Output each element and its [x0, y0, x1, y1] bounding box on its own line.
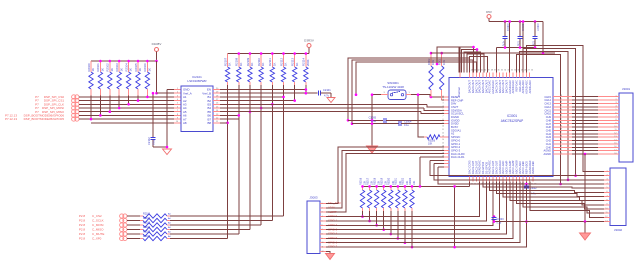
svg-text:1K: 1K: [91, 68, 95, 72]
svg-text:10: 10: [322, 242, 324, 244]
wire DSP_SPI_CLK row: [79, 103, 174, 105]
pull-up rail bank2: [228, 53, 309, 55]
svg-text:1K: 1K: [272, 62, 276, 66]
svg-text:3: 3: [443, 102, 444, 104]
svg-text:A8: A8: [183, 121, 187, 125]
pull-up rail bank1: [91, 60, 157, 62]
wire GPIO-3 row from J3003: [326, 229, 384, 231]
wire DVDD row with capacitor C3005: [348, 119, 383, 121]
svg-text:11: 11: [442, 129, 444, 131]
wire GPIO-1 row from J3003: [326, 220, 370, 222]
svg-text:D3R3V: D3R3V: [304, 39, 314, 43]
svg-text:27: 27: [528, 70, 530, 72]
svg-text:4.7u: 4.7u: [502, 41, 505, 46]
svg-text:1: 1: [443, 96, 444, 98]
AGND to J3002: [584, 153, 587, 156]
wire B2 via R2113: [220, 100, 295, 102]
resistor R2100 1K: [90, 61, 92, 72]
wire D5V rail: [489, 21, 543, 23]
resistor R2106: [127, 238, 140, 240]
svg-text:2: 2: [606, 174, 607, 176]
wire GPIO-6 row from J3003: [326, 242, 405, 244]
svg-text:P2.8: P2.8: [79, 223, 86, 227]
chip top pin names: [469, 73, 471, 78]
svg-text:TS-1102W 4328: TS-1102W 4328: [382, 85, 404, 89]
svg-text:1K: 1K: [228, 62, 232, 66]
svg-text:1: 1: [322, 203, 323, 205]
svg-text:1K: 1K: [295, 62, 299, 66]
svg-text:C2102: C2102: [147, 137, 151, 145]
svg-text:7: 7: [606, 195, 607, 197]
resistor R3026 10K: [418, 95, 424, 137]
svg-text:9: 9: [606, 204, 607, 206]
svg-text:8: 8: [322, 233, 323, 235]
svg-text:2: 2: [322, 207, 323, 209]
svg-text:1K: 1K: [284, 62, 288, 66]
wires chip right to J3001: [553, 96, 572, 98]
svg-text:R2104: R2104: [143, 226, 151, 229]
wire GPIO-4 row from J3003: [326, 233, 391, 235]
connector J3002: [610, 168, 626, 226]
svg-text:P2.8: P2.8: [79, 232, 86, 236]
svg-text:R3016: R3016: [359, 177, 362, 185]
svg-text:6: 6: [443, 112, 444, 114]
capacitor C2101: [317, 91, 319, 96]
svg-text:11: 11: [322, 247, 324, 249]
wire cap rail to AVDD pins: [496, 47, 535, 49]
wire AGND row: [494, 221, 604, 223]
svg-text:R3020: R3020: [388, 177, 391, 185]
svg-text:1K: 1K: [250, 62, 254, 66]
resistor R2105 1K: [137, 61, 139, 72]
wires top pins join DAC rows: [523, 49, 576, 176]
resistor R3019 10K: [383, 186, 385, 190]
svg-text:14: 14: [442, 139, 444, 141]
svg-text:10: 10: [605, 208, 607, 210]
svg-text:4.7u: 4.7u: [324, 94, 330, 98]
svg-text:C_SCLK: C_SCLK: [92, 219, 104, 223]
svg-text:C_MISO: C_MISO: [92, 228, 104, 232]
svg-text:1K: 1K: [110, 68, 114, 72]
wire B7 B8 stubs: [220, 118, 239, 120]
svg-text:36: 36: [560, 135, 562, 137]
svg-text:10: 10: [614, 126, 616, 128]
svg-text:J3001: J3001: [622, 87, 631, 91]
svg-text:43: 43: [474, 70, 476, 72]
svg-text:10K: 10K: [413, 180, 416, 185]
bottom pull-up rail to IOVDD: [363, 185, 470, 187]
capacitor C3002 4.7u: [525, 183, 528, 186]
svg-text:12: 12: [322, 251, 324, 253]
svg-text:42: 42: [477, 70, 479, 72]
resistor R2104 1K: [128, 61, 130, 72]
wire DSP_BOOTMODE06/GPIO06 row: [79, 114, 174, 116]
svg-text:R3023: R3023: [409, 177, 412, 185]
svg-text:3: 3: [606, 179, 607, 181]
svg-text:200K: 200K: [306, 59, 310, 66]
svg-text:15: 15: [614, 143, 616, 145]
svg-text:2: 2: [443, 99, 444, 101]
capacitor C3006 0.1u: [519, 22, 521, 37]
resistor R3011 10K: [430, 53, 432, 66]
svg-text:40: 40: [560, 122, 562, 124]
resistor R2112 1K: [283, 54, 285, 68]
wire top pin to J3002 pin1: [526, 46, 604, 172]
svg-text:12: 12: [442, 132, 444, 134]
svg-text:13: 13: [442, 136, 444, 138]
ground (SW3001): [367, 146, 378, 153]
svg-text:R3017: R3017: [366, 177, 369, 185]
resistor R2102 1K: [109, 61, 111, 72]
svg-text:8: 8: [615, 119, 616, 121]
resistor R2106 1K: [146, 61, 148, 72]
svg-text:AMC7812SPAP: AMC7812SPAP: [501, 119, 523, 123]
svg-text:35: 35: [501, 70, 503, 72]
wire D5V pass-through pins: [509, 22, 511, 73]
svg-text:P2.8: P2.8: [79, 214, 86, 218]
wire IOVDD row with capacitor C3004: [352, 123, 399, 125]
svg-text:AGND: AGND: [544, 152, 552, 156]
svg-text:46: 46: [560, 102, 562, 104]
ground rail via SW: [371, 95, 373, 146]
svg-text:11: 11: [615, 129, 617, 131]
wire A8 row: [91, 122, 174, 124]
svg-text:C3002: C3002: [530, 187, 538, 190]
svg-text:D5V: D5V: [486, 10, 492, 14]
svg-text:8: 8: [606, 199, 607, 201]
wire VrefA row: [157, 92, 175, 94]
svg-text:C_CS2: C_CS2: [92, 214, 102, 218]
svg-text:11: 11: [606, 212, 608, 214]
wire B3 B4 B5 rows to chip: [220, 103, 427, 105]
svg-text:36: 36: [498, 70, 500, 72]
resistor R3012 10K: [441, 53, 443, 66]
svg-text:P2.8: P2.8: [79, 237, 86, 241]
svg-text:38: 38: [560, 129, 562, 131]
svg-text:4: 4: [322, 216, 323, 218]
ground (IC2101): [163, 149, 172, 155]
ic IC3001 AMC7812SPAP box: [449, 78, 553, 177]
svg-text:32: 32: [511, 70, 513, 72]
resistor R2114 200K: [305, 54, 307, 68]
svg-text:18: 18: [614, 153, 616, 155]
wire IC2101 GND to ground: [167, 89, 174, 91]
wire DSP_BOOTMODE05/GPIO05 row: [79, 118, 174, 120]
svg-text:47: 47: [560, 98, 562, 100]
svg-text:D1R8V: D1R8V: [152, 42, 162, 46]
wires C_ bus to bank2 verticals: [170, 215, 284, 217]
svg-text:3: 3: [615, 102, 616, 104]
svg-text:1K: 1K: [129, 68, 133, 72]
svg-text:9: 9: [615, 122, 616, 124]
resistor R2105: [127, 233, 140, 235]
svg-text:34: 34: [560, 142, 562, 144]
svg-text:C_MOSI: C_MOSI: [92, 223, 104, 227]
svg-text:1K: 1K: [148, 68, 152, 72]
wire GPIO-7 row from J3003: [326, 246, 412, 248]
svg-text:LSF0108PWR: LSF0108PWR: [187, 79, 207, 83]
svg-text:16: 16: [614, 146, 616, 148]
svg-text:10K: 10K: [428, 142, 433, 145]
svg-text:41: 41: [481, 70, 483, 72]
connector J3003: [307, 201, 320, 254]
svg-text:5: 5: [322, 220, 323, 222]
wire GPIO-0 row from J3003: [326, 216, 363, 218]
svg-text:45: 45: [560, 105, 562, 107]
svg-text:IC3001: IC3001: [507, 114, 518, 118]
svg-text:R3021: R3021: [395, 177, 398, 185]
svg-text:1K: 1K: [119, 68, 123, 72]
pull-up rail R3011 R3012: [431, 52, 555, 54]
svg-text:C3007: C3007: [536, 24, 539, 32]
svg-text:DAC-CLR1: DAC-CLR1: [451, 155, 465, 159]
capacitor C3001 4.7u: [504, 22, 506, 37]
resistor R2107 1K: [227, 54, 229, 68]
wire DSP_SPI_MISO row: [79, 111, 174, 113]
svg-text:8: 8: [443, 119, 444, 121]
resistor R2101 1K: [99, 61, 101, 72]
svg-text:P7.12.13: P7.12.13: [5, 117, 17, 121]
svg-text:1K: 1K: [101, 68, 105, 72]
svg-text:5: 5: [443, 109, 444, 111]
resistor R3018 10K: [376, 186, 378, 190]
power run A to DVDD: [348, 58, 470, 121]
svg-text:31: 31: [560, 152, 562, 154]
svg-text:48: 48: [560, 95, 562, 97]
svg-text:R2103: R2103: [143, 221, 151, 224]
svg-text:6: 6: [615, 112, 616, 114]
svg-text:C_MUTE: C_MUTE: [92, 232, 104, 236]
svg-text:35: 35: [560, 139, 562, 141]
capacitor C2102 0.1u: [152, 93, 154, 137]
resistor R3023 10K: [411, 186, 413, 190]
svg-text:1: 1: [606, 170, 607, 172]
svg-text:5: 5: [606, 187, 607, 189]
resistor R2101: [127, 215, 140, 217]
svg-text:44: 44: [560, 108, 562, 110]
svg-text:39: 39: [560, 125, 562, 127]
svg-text:1K: 1K: [239, 62, 243, 66]
svg-text:7: 7: [443, 116, 444, 118]
resistor R2113 1K: [294, 54, 296, 68]
svg-text:6: 6: [322, 225, 323, 227]
svg-text:AVDD-ADC: AVDD-ADC: [528, 80, 532, 93]
svg-text:AVDD-REF: AVDD-REF: [531, 161, 535, 174]
AGND drop: [454, 186, 456, 247]
svg-text:39: 39: [488, 70, 490, 72]
svg-text:40: 40: [484, 70, 486, 72]
capacitor C3007 0.1u: [534, 22, 536, 37]
svg-text:1: 1: [615, 96, 616, 98]
svg-text:C_XF0: C_XF0: [92, 237, 102, 241]
svg-text:R2101: R2101: [143, 212, 151, 215]
resistor R3021 10K: [397, 186, 399, 190]
ground (C2101): [327, 98, 335, 103]
svg-text:13: 13: [605, 220, 607, 222]
svg-text:2: 2: [615, 99, 616, 101]
svg-text:12: 12: [605, 216, 607, 218]
svg-text:37: 37: [560, 132, 562, 134]
svg-text:33: 33: [560, 146, 562, 148]
svg-text:13: 13: [614, 136, 616, 138]
op IC2101 LSF0108PWR box: [181, 86, 213, 132]
svg-text:0.1u: 0.1u: [404, 124, 409, 127]
svg-text:3: 3: [322, 212, 323, 214]
wire J3003 last pin to ground: [326, 251, 330, 253]
resistor R2109 1K: [249, 54, 251, 68]
switch SW3001 TS-1102W: [388, 90, 406, 100]
svg-text:R2102: R2102: [143, 217, 151, 220]
svg-text:5: 5: [615, 109, 616, 111]
svg-text:C3001: C3001: [506, 24, 509, 32]
svg-text:26: 26: [531, 70, 533, 72]
svg-text:43: 43: [560, 112, 562, 114]
resistor R2102: [127, 220, 140, 222]
svg-text:14: 14: [614, 139, 616, 141]
svg-text:15: 15: [442, 142, 444, 144]
svg-text:4: 4: [606, 183, 607, 185]
svg-text:Thermal: Thermal: [457, 87, 461, 97]
svg-text:4: 4: [443, 106, 444, 108]
svg-text:R3022: R3022: [402, 177, 405, 185]
resistor R2110 1K: [260, 54, 262, 68]
svg-text:32: 32: [560, 149, 562, 151]
svg-text:10: 10: [442, 126, 444, 128]
svg-text:7: 7: [615, 116, 616, 118]
svg-text:12: 12: [614, 133, 616, 135]
svg-text:B8: B8: [207, 121, 211, 125]
resistor R2104: [127, 229, 140, 231]
svg-text:R3018: R3018: [373, 177, 376, 185]
svg-text:R2105: R2105: [143, 230, 151, 233]
svg-text:41: 41: [560, 119, 562, 121]
svg-text:P2.8: P2.8: [79, 219, 86, 223]
wire DSP_SPI_MOSI row: [79, 107, 174, 109]
off-page connectors for DSP bus: [72, 95, 76, 99]
svg-text:DSP_BOOTMODE05/GPIO05: DSP_BOOTMODE05/GPIO05: [24, 117, 65, 121]
capacitor C3003 0.1u: [493, 215, 496, 218]
resistor R3020 10K: [390, 186, 392, 190]
resistor R2103: [127, 224, 140, 226]
svg-text:R2106: R2106: [143, 235, 151, 238]
svg-text:P2.8: P2.8: [79, 228, 86, 232]
ground (J3003): [326, 254, 335, 260]
wires DAC rows to J3002 pins 2-4: [430, 160, 604, 175]
wire SW3001 to RESET: [372, 94, 381, 96]
svg-text:J3002: J3002: [614, 228, 623, 232]
svg-text:R3019: R3019: [381, 177, 384, 185]
svg-text:44: 44: [471, 70, 473, 72]
svg-text:9: 9: [322, 238, 323, 240]
resistor R2103 1K: [118, 61, 120, 72]
svg-text:6: 6: [606, 191, 607, 193]
svg-text:34: 34: [504, 70, 506, 72]
wire GPIO-5 row from J3003: [326, 237, 398, 239]
chip bottom pin names: [469, 177, 471, 182]
resistor R2111 1K: [271, 54, 273, 68]
svg-text:J3003: J3003: [309, 196, 318, 200]
wire EN pull-up via R2114: [305, 85, 307, 93]
svg-text:38: 38: [491, 70, 493, 72]
svg-text:0.1u: 0.1u: [517, 41, 520, 46]
svg-text:1K: 1K: [261, 62, 265, 66]
resistor R3022 10K: [404, 186, 406, 190]
svg-text:4: 4: [615, 106, 616, 108]
svg-text:0.1u: 0.1u: [152, 139, 156, 145]
rail riser to chip: [419, 157, 421, 186]
wire B rows from IC2101: [220, 89, 306, 91]
wires GPIO rows staircase to chip bottom pins: [326, 182, 480, 217]
svg-text:1K: 1K: [138, 68, 142, 72]
vertical drops bank2 to B rows and bottom bus: [220, 122, 228, 124]
wire D5V corner to rail: [542, 22, 544, 54]
svg-text:42: 42: [560, 115, 562, 117]
wire top arches: [459, 47, 474, 73]
svg-text:C2101: C2101: [323, 88, 331, 92]
wire GPIO-2 row from J3003: [326, 224, 377, 226]
resistor R3016 10K: [362, 186, 364, 190]
wires chip bottom to J3002 staircase: [483, 182, 604, 189]
svg-text:9: 9: [443, 122, 444, 124]
power run B to IOVDD: [352, 60, 473, 124]
run to switch net: [356, 62, 476, 94]
wire DSP_SPI_CS1 row: [79, 100, 174, 102]
svg-text:17: 17: [614, 149, 616, 151]
svg-text:7: 7: [322, 229, 323, 231]
ground (J3002): [580, 233, 591, 240]
resistor R2108 1K: [238, 54, 240, 68]
resistor R3017 10K: [369, 186, 371, 190]
wire DSP_SPI_CS0 row: [79, 96, 174, 98]
wires J3003 top pins up to chip GPIO rows: [326, 147, 444, 204]
